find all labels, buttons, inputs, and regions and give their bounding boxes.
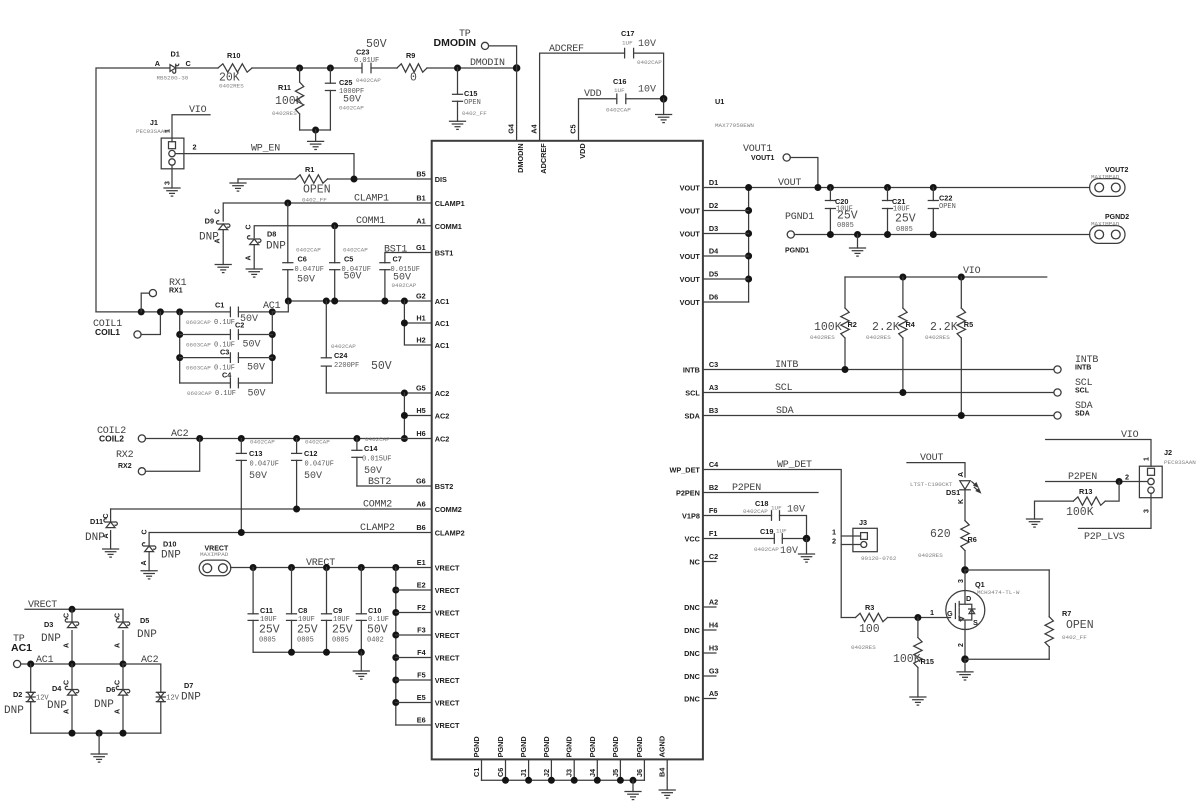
svg-text:DNP: DNP xyxy=(161,550,181,562)
svg-text:0805: 0805 xyxy=(332,637,349,645)
testpoint TP AC1 xyxy=(14,660,21,667)
svg-text:A5: A5 xyxy=(709,689,718,698)
svg-text:VOUT: VOUT xyxy=(680,230,701,239)
junction CLAMP1/C6 xyxy=(284,200,291,207)
svg-text:0402: 0402 xyxy=(367,637,384,645)
svg-text:C: C xyxy=(186,59,192,68)
svg-text:VOUT1: VOUT1 xyxy=(751,155,774,162)
junction R11 node xyxy=(296,65,303,72)
svg-text:CLAMP2: CLAMP2 xyxy=(360,523,395,534)
junction SDA/R5 xyxy=(958,412,965,419)
wire VRECT pin stub xyxy=(396,589,432,591)
junction VRECT bus xyxy=(392,677,399,684)
svg-text:D2: D2 xyxy=(709,201,718,210)
svg-text:PGND1: PGND1 xyxy=(785,212,814,223)
junction SCL/R4 xyxy=(899,389,906,396)
svg-text:DS1: DS1 xyxy=(946,488,960,497)
resistor R11 100K xyxy=(299,68,301,82)
capacitor C12 0.047UF xyxy=(296,439,298,454)
junction COMM1/C5 xyxy=(331,222,338,229)
svg-text:0603CAP: 0603CAP xyxy=(186,342,211,349)
svg-text:0.01UF: 0.01UF xyxy=(354,57,379,65)
svg-text:0402CAP: 0402CAP xyxy=(343,247,368,254)
junction VRECT/C9 xyxy=(323,564,330,571)
svg-text:COMM2: COMM2 xyxy=(363,500,392,511)
svg-text:A: A xyxy=(63,643,70,648)
ground AGND xyxy=(659,790,675,798)
svg-text:SDA: SDA xyxy=(1075,411,1090,418)
svg-text:D3: D3 xyxy=(709,224,718,233)
wire COIL1 to D1 anode xyxy=(96,68,170,312)
junction PGND bus xyxy=(525,777,532,784)
ground C18/C19 xyxy=(806,539,808,555)
resistor R5 2.2K xyxy=(960,277,962,308)
svg-text:C16: C16 xyxy=(613,77,626,86)
svg-text:DNC: DNC xyxy=(684,672,701,681)
svg-text:DMODIN: DMODIN xyxy=(470,58,505,69)
svg-text:J5: J5 xyxy=(611,769,620,777)
pin C2 NC stub xyxy=(703,561,716,563)
svg-text:0402CAP: 0402CAP xyxy=(754,546,779,553)
svg-text:J1: J1 xyxy=(519,769,528,777)
svg-text:0.1UF: 0.1UF xyxy=(214,319,235,327)
wire VRECT net E1 xyxy=(231,567,432,569)
svg-text:J3: J3 xyxy=(859,518,867,527)
ground R1 left xyxy=(237,179,239,183)
svg-text:0.047UF: 0.047UF xyxy=(295,266,324,274)
svg-text:C10: C10 xyxy=(368,606,381,615)
svg-text:DNC: DNC xyxy=(684,695,701,704)
connector SCL circle xyxy=(1054,389,1061,396)
svg-text:WP_DET: WP_DET xyxy=(669,466,700,475)
connector J1 PEC03SAAN xyxy=(161,138,184,169)
wire VRECT pin stub xyxy=(396,657,432,659)
diode D10 DNP xyxy=(148,533,150,546)
svg-text:0402CAP: 0402CAP xyxy=(356,77,381,84)
wire H5 stub xyxy=(404,415,431,417)
wire COMM2 net A6 xyxy=(111,508,432,510)
resistor R3 100 xyxy=(841,617,855,619)
svg-text:VRECT: VRECT xyxy=(435,676,460,685)
wire drain node to R7 xyxy=(965,569,1049,571)
svg-text:PGND1: PGND1 xyxy=(785,248,809,255)
junction C12 xyxy=(293,435,300,442)
svg-text:A: A xyxy=(114,643,121,648)
resistor R10 20K xyxy=(218,64,252,72)
svg-text:R9: R9 xyxy=(406,51,415,60)
svg-text:A2: A2 xyxy=(709,598,718,607)
junction bus/D6 xyxy=(120,730,127,737)
ground D8 xyxy=(246,269,262,277)
svg-text:A: A xyxy=(155,59,161,68)
svg-text:1UF: 1UF xyxy=(771,505,782,512)
svg-text:PGND: PGND xyxy=(496,736,505,757)
wire P2PEN net to J2 pin2 xyxy=(1046,481,1148,483)
svg-text:Q1: Q1 xyxy=(975,580,985,589)
diode D8 DNP xyxy=(247,236,261,245)
svg-text:VRECT: VRECT xyxy=(435,586,460,595)
svg-text:INTB: INTB xyxy=(775,360,798,371)
testpoint COIL2 xyxy=(138,435,145,442)
svg-text:100: 100 xyxy=(859,623,880,636)
svg-text:RX1: RX1 xyxy=(169,288,183,295)
svg-text:NC: NC xyxy=(689,558,700,567)
svg-text:1UF: 1UF xyxy=(776,528,787,535)
junction C21 bottom xyxy=(884,231,891,238)
wire R10 to C23 xyxy=(252,67,362,69)
svg-text:DNP: DNP xyxy=(266,241,286,253)
wire AC1 row bridge xyxy=(21,663,123,665)
capacitor C17 1UF xyxy=(625,48,634,58)
svg-text:VIO: VIO xyxy=(1121,430,1139,441)
svg-text:R6: R6 xyxy=(968,535,977,544)
ground C17/C16 xyxy=(663,99,665,115)
svg-text:C: C xyxy=(246,224,253,229)
svg-text:A6: A6 xyxy=(416,500,425,509)
svg-text:RB520G-30: RB520G-30 xyxy=(157,75,189,82)
wire CLAMP2 net B6 xyxy=(149,532,432,534)
svg-text:50V: 50V xyxy=(297,275,315,286)
junction C20 bottom xyxy=(827,231,834,238)
svg-text:C: C xyxy=(142,529,149,534)
svg-text:COMM2: COMM2 xyxy=(435,505,462,514)
junction C2 right xyxy=(269,331,276,338)
pad VRECT MAXIMPAD xyxy=(199,560,231,576)
capacitor C15 OPEN xyxy=(457,68,459,94)
junction INTB/R2 xyxy=(842,366,849,373)
wire VOUT pin stub xyxy=(703,278,749,280)
junction H6/AC2 xyxy=(401,435,408,442)
svg-text:100K: 100K xyxy=(814,321,842,334)
svg-text:DNC: DNC xyxy=(684,626,701,635)
svg-text:C17: C17 xyxy=(621,29,634,38)
svg-text:RX2: RX2 xyxy=(116,450,134,461)
wire C17 to ground node xyxy=(634,53,664,99)
wire COMM1 net A1 xyxy=(254,226,432,238)
junction R5/VIO xyxy=(958,274,965,281)
svg-text:OPEN: OPEN xyxy=(1066,619,1094,632)
svg-text:VRECT: VRECT xyxy=(28,600,57,611)
svg-text:OPEN: OPEN xyxy=(464,99,481,107)
wire VRECT pin stub xyxy=(396,702,432,704)
svg-text:C6: C6 xyxy=(496,768,505,777)
svg-text:2: 2 xyxy=(832,537,836,546)
svg-text:0402CAP: 0402CAP xyxy=(339,105,364,112)
junction VRECT/C10 xyxy=(358,564,365,571)
svg-text:D1: D1 xyxy=(709,178,718,187)
junction C22 top xyxy=(930,184,937,191)
wire ADCREF A4 pin xyxy=(540,53,625,141)
svg-text:H4: H4 xyxy=(709,621,719,630)
svg-text:C1: C1 xyxy=(215,301,224,310)
wire C23 to R9 xyxy=(371,67,397,69)
svg-text:VDD: VDD xyxy=(578,143,587,158)
junction VOUT bus xyxy=(745,207,752,214)
svg-text:1: 1 xyxy=(164,129,171,133)
svg-text:DIS: DIS xyxy=(435,175,447,184)
wire VRECT pin bus vertical xyxy=(395,568,397,726)
svg-text:J2: J2 xyxy=(1164,448,1172,457)
pin A2 DNC stub xyxy=(703,606,716,608)
svg-text:D2: D2 xyxy=(13,690,22,699)
svg-text:P2PEN: P2PEN xyxy=(676,489,700,498)
svg-text:D5: D5 xyxy=(709,270,718,279)
svg-text:PEC03SAAN: PEC03SAAN xyxy=(1164,459,1196,466)
svg-text:A3: A3 xyxy=(709,383,718,392)
svg-text:C3: C3 xyxy=(709,360,718,369)
svg-text:VIO: VIO xyxy=(189,105,207,116)
ground D11 xyxy=(103,549,119,557)
svg-text:K: K xyxy=(958,499,965,504)
svg-text:0402CAP: 0402CAP xyxy=(637,59,662,66)
wire bridge ground bus xyxy=(31,732,161,734)
capacitor C7 0.015UF xyxy=(380,263,390,270)
wire C1 right xyxy=(238,311,272,313)
resistor R9 0 xyxy=(397,64,427,72)
pin H3 DNC stub xyxy=(703,652,716,654)
svg-text:PGND: PGND xyxy=(635,736,644,757)
svg-text:PGND: PGND xyxy=(472,736,481,757)
svg-text:A1: A1 xyxy=(416,216,425,225)
svg-text:C11: C11 xyxy=(260,606,273,615)
svg-text:DNP: DNP xyxy=(94,699,114,711)
svg-text:J2: J2 xyxy=(542,769,551,777)
svg-text:E6: E6 xyxy=(417,716,426,725)
diode D1 RB520G-30 xyxy=(170,64,179,73)
junction PGND ground tap xyxy=(630,777,637,784)
svg-text:0402CAP: 0402CAP xyxy=(392,282,417,289)
svg-text:B4: B4 xyxy=(658,767,667,777)
svg-text:1: 1 xyxy=(930,608,934,617)
svg-text:D4: D4 xyxy=(709,247,719,256)
svg-text:E2: E2 xyxy=(417,581,426,590)
junction H5 xyxy=(401,412,408,419)
svg-text:50V: 50V xyxy=(304,471,322,482)
testpoint PGND1 xyxy=(787,231,794,238)
svg-text:0402RES: 0402RES xyxy=(925,334,950,341)
svg-text:AC1: AC1 xyxy=(435,297,450,306)
svg-text:MAXIMPAD: MAXIMPAD xyxy=(1091,174,1120,181)
capacitor C19 1UF VCC xyxy=(703,538,774,540)
resistor R13 100K xyxy=(1035,501,1074,519)
svg-text:2: 2 xyxy=(958,643,965,647)
svg-text:C7: C7 xyxy=(393,255,402,264)
svg-text:10V: 10V xyxy=(780,546,798,557)
capacitor C1 0.1UF xyxy=(230,307,238,317)
svg-text:0805: 0805 xyxy=(896,226,913,234)
wire COIL1 row xyxy=(96,311,230,313)
svg-text:DNP: DNP xyxy=(181,692,201,704)
svg-text:R13: R13 xyxy=(1079,487,1092,496)
wire ladder left vertical xyxy=(179,312,181,383)
svg-text:COIL2: COIL2 xyxy=(99,434,124,444)
testpoint RX1 xyxy=(149,290,156,297)
junction R6/Q1/R7 xyxy=(961,566,969,574)
svg-text:C25: C25 xyxy=(339,78,352,87)
junction AC2/D5D6 xyxy=(120,661,127,668)
wire PGND1 net xyxy=(794,234,1089,236)
svg-text:BST2: BST2 xyxy=(368,477,391,488)
svg-text:F4: F4 xyxy=(417,648,426,657)
svg-text:OPEN: OPEN xyxy=(303,184,331,197)
junction R3/R15 gate node xyxy=(914,614,921,621)
ground Q1 source xyxy=(964,659,966,672)
svg-text:VOUT1: VOUT1 xyxy=(743,144,772,155)
junction RX1 tap xyxy=(138,308,145,315)
pin J2 PGND stub xyxy=(550,759,552,780)
svg-text:DNP: DNP xyxy=(85,532,105,544)
svg-text:SCL: SCL xyxy=(1075,388,1090,395)
svg-text:0603CAP: 0603CAP xyxy=(187,390,212,397)
svg-text:AC1: AC1 xyxy=(36,655,54,666)
svg-text:C1: C1 xyxy=(472,768,481,777)
svg-text:J4: J4 xyxy=(588,768,597,777)
connector J2 PEC03SAAN xyxy=(1139,466,1162,498)
junction VRECT/D3 xyxy=(69,606,76,613)
pad VOUT2 MAXIMPAD xyxy=(1090,179,1125,197)
wire VOUT pin bus vertical xyxy=(748,188,750,303)
junction G5 branch xyxy=(401,390,408,397)
svg-text:DNP: DNP xyxy=(199,232,219,244)
svg-text:25V: 25V xyxy=(332,624,353,637)
junction PGND bus xyxy=(548,777,555,784)
junction C25 node xyxy=(327,65,334,72)
svg-text:F1: F1 xyxy=(709,529,718,538)
svg-text:3: 3 xyxy=(958,579,965,583)
svg-text:0402CAP: 0402CAP xyxy=(331,343,356,350)
svg-text:PGND: PGND xyxy=(588,736,597,757)
wire VOUT pin stub xyxy=(703,301,749,303)
pin J4 PGND stub xyxy=(596,759,598,780)
diode D3 DNP xyxy=(71,609,73,621)
svg-text:RX2: RX2 xyxy=(118,463,132,470)
junction C15 node xyxy=(454,65,461,72)
junction bus/D4 xyxy=(69,730,76,737)
svg-text:50V: 50V xyxy=(248,389,266,400)
junction PGND1 ground tap xyxy=(854,231,861,238)
wire VOUT net D1 xyxy=(703,187,1090,189)
svg-text:DNP: DNP xyxy=(4,705,24,717)
svg-text:U1: U1 xyxy=(715,97,724,106)
svg-text:AC2: AC2 xyxy=(435,389,450,398)
junction COIL1 tap xyxy=(157,308,164,315)
diode D11 DNP xyxy=(110,509,112,521)
svg-text:VRECT: VRECT xyxy=(435,699,460,708)
wire VRECT pin stub xyxy=(396,724,432,726)
capacitor C2 0.1UF xyxy=(180,334,231,336)
svg-text:P2PEN: P2PEN xyxy=(732,483,761,494)
svg-text:VOUT: VOUT xyxy=(680,298,701,307)
junction AC1/D2 xyxy=(27,661,34,668)
diode D6 DNP xyxy=(122,664,124,733)
wire R11/C25 to ground xyxy=(300,129,331,131)
svg-text:LTST-C190CKT: LTST-C190CKT xyxy=(910,481,953,488)
wire INTB net C3 xyxy=(703,369,1054,371)
ground R13 xyxy=(1027,519,1043,527)
ground bridge xyxy=(98,733,100,754)
svg-text:2.2K: 2.2K xyxy=(872,321,900,334)
svg-text:50V: 50V xyxy=(247,363,265,374)
svg-text:H6: H6 xyxy=(416,429,425,438)
svg-text:50V: 50V xyxy=(367,624,388,637)
svg-text:B2: B2 xyxy=(709,483,718,492)
svg-text:D8: D8 xyxy=(267,230,276,239)
junction CLAMP2/C13 xyxy=(238,529,245,536)
svg-text:G4: G4 xyxy=(507,123,516,134)
svg-text:VOUT: VOUT xyxy=(778,178,801,189)
junction VRECT bus xyxy=(392,632,399,639)
svg-text:R5: R5 xyxy=(964,320,973,329)
svg-text:50V: 50V xyxy=(344,272,362,283)
svg-text:MAX77950EWN: MAX77950EWN xyxy=(715,122,754,129)
svg-text:CLAMP1: CLAMP1 xyxy=(435,199,465,208)
svg-text:0402CAP: 0402CAP xyxy=(606,107,631,114)
junction C18/C19 ground xyxy=(803,535,811,543)
junction WP_EN/R1/DIS xyxy=(351,176,358,183)
testpoint TP DMODIN xyxy=(481,42,488,49)
svg-text:CLAMP2: CLAMP2 xyxy=(435,529,465,538)
svg-text:1: 1 xyxy=(1143,457,1150,461)
svg-text:MAXIMPAD: MAXIMPAD xyxy=(1091,221,1120,228)
wire J3 pin1 stub xyxy=(841,535,860,537)
svg-text:VRECT: VRECT xyxy=(435,654,460,663)
svg-text:A4: A4 xyxy=(530,124,539,134)
svg-text:OPEN: OPEN xyxy=(939,203,956,211)
svg-text:0402RES: 0402RES xyxy=(866,334,891,341)
wire BST2 net G6 xyxy=(357,485,432,487)
pin A5 DNC stub xyxy=(703,698,716,700)
svg-text:0402CAP: 0402CAP xyxy=(250,439,275,446)
ground PGND1 xyxy=(857,235,859,249)
wire H1 stub xyxy=(404,322,431,324)
svg-text:DMODIN: DMODIN xyxy=(434,37,477,49)
junction C21 top xyxy=(884,184,891,191)
junction C10 bottom xyxy=(358,649,365,656)
svg-text:INTB: INTB xyxy=(683,366,700,375)
capacitor C13 0.047UF xyxy=(240,439,242,454)
svg-text:C12: C12 xyxy=(304,449,317,458)
pin J6 PGND stub xyxy=(643,759,645,780)
wire AC1 branch to H1/H2 xyxy=(404,301,431,345)
wire VOUT pin stub xyxy=(703,210,749,212)
svg-text:MAXIMPAD: MAXIMPAD xyxy=(200,551,229,558)
junction VOUT bus D1 xyxy=(745,184,752,191)
pin H4 DNC stub xyxy=(703,629,716,631)
ground D10 xyxy=(141,571,157,579)
junction ladder C2 left xyxy=(176,331,183,338)
wire VRECT pin stub xyxy=(396,634,432,636)
capacitor C6 0.047UF xyxy=(287,203,289,263)
svg-text:DNP: DNP xyxy=(47,700,67,712)
svg-text:12V: 12V xyxy=(166,695,179,703)
svg-text:3: 3 xyxy=(164,181,171,185)
svg-text:D9: D9 xyxy=(205,217,214,226)
svg-text:0402CAP: 0402CAP xyxy=(305,439,330,446)
svg-text:D5: D5 xyxy=(140,616,149,625)
svg-text:VRECT: VRECT xyxy=(435,721,460,730)
junction C13 xyxy=(238,435,245,442)
svg-text:B5: B5 xyxy=(416,170,425,179)
svg-text:V1P8: V1P8 xyxy=(682,512,700,521)
junction VRECT/C11 xyxy=(250,564,257,571)
svg-text:100K: 100K xyxy=(893,653,921,666)
capacitor C4 0.1UF xyxy=(180,382,231,384)
wire VRECT caps ground bus xyxy=(253,651,361,653)
resistor R7 OPEN xyxy=(1048,570,1050,617)
svg-text:D11: D11 xyxy=(90,517,103,526)
connector SDA circle xyxy=(1054,412,1061,419)
svg-text:H3: H3 xyxy=(709,644,718,653)
